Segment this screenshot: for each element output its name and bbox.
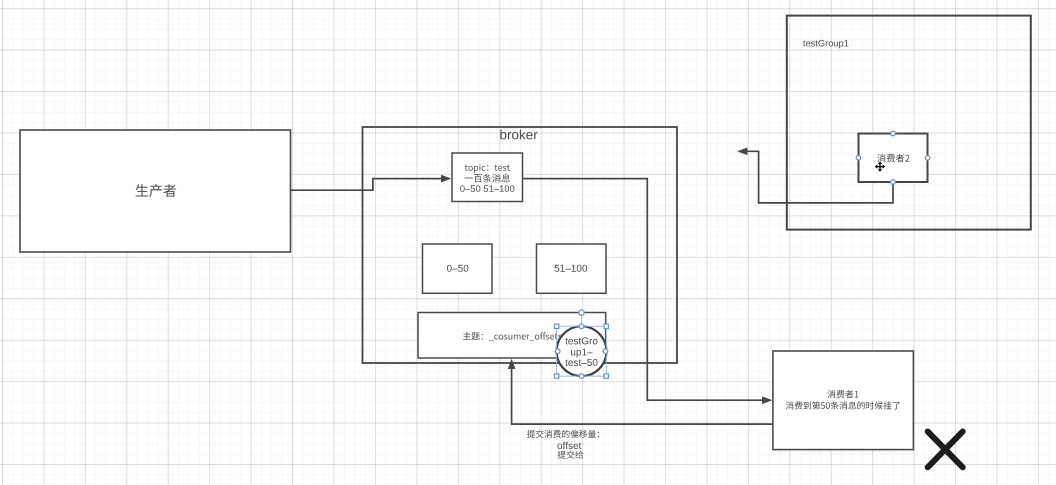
label 消费者1 [827,390,858,398]
rectangle: topic test box [452,153,523,202]
connection point top of consumer2 [891,131,896,136]
selection handle bottom-mid [579,374,584,379]
rectangle: broker box [363,127,678,363]
rectangle: producer box [20,130,291,252]
label test–50 [565,359,597,366]
selection handle bottom-left [554,374,558,378]
label 提交消费的偏移量： [527,430,599,438]
rectangle: _cosumer_offsets topic box [418,313,606,359]
wire: topic box right to consumer1 [523,179,771,401]
label testGro [565,337,597,344]
label 提交给 [558,451,584,459]
selection handle bottom-right [604,374,608,378]
selection handle right-mid [603,349,608,354]
X failure mark [928,432,963,468]
circle: testGroup1-test-50 consumer group [557,326,607,376]
rectangle: partition 0-50 box [423,244,493,293]
label 一百条消息 [465,174,511,183]
selection handle top-left [554,324,558,328]
label 主题：_cosumer_offsets [463,332,562,341]
selection handle top-right [604,324,608,328]
selection handle left-mid [555,349,560,354]
label offset [557,442,581,449]
move cursor icon on consumer2 [875,161,886,172]
label topic：test [465,164,510,173]
rectangle: partition 51-100 box [537,244,607,293]
label testGroup1 [803,40,849,48]
label 0–50 51–100 [460,185,514,192]
connection point right of consumer2 [925,156,930,161]
label 消费到第50条消息的时候挂了 [786,401,900,409]
wire: consumer2 bottom, left arrow out of testGroup1 [739,151,893,203]
label up1– [571,349,593,358]
connection point left of consumer2 [856,156,861,161]
connection point bottom of consumer2 [891,180,896,185]
label 消费者2 [877,154,909,163]
label broker [500,130,537,140]
label 0–50 [447,265,468,272]
wire: consumer1 left to offsets topic (arrow up) [512,361,773,425]
wire: producer to topic box [291,179,450,191]
rectangle: consumer2 box [859,134,928,183]
rectangle: consumer1 box [773,351,914,450]
label 51–100 [555,265,588,272]
rotation handle [579,310,584,315]
selection frame around circle [557,326,607,376]
rectangle: testGroup1 box [787,16,1031,230]
rotation handle stem [581,315,583,326]
selection handle top-mid [579,324,584,329]
label 生产者 [136,184,176,197]
